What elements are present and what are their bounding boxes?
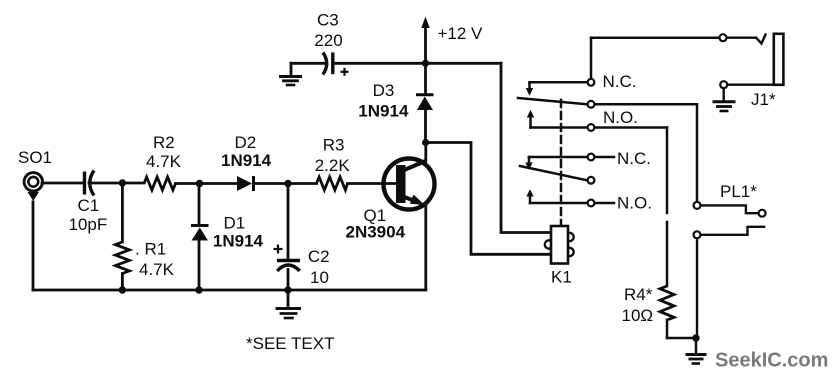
svg-text:C1: C1 [78,196,100,215]
svg-text:10: 10 [310,268,329,287]
svg-text:+12 V: +12 V [438,24,484,43]
svg-text:2.2K: 2.2K [315,156,351,175]
svg-text:PL1*: PL1* [720,182,757,201]
svg-text:10Ω: 10Ω [622,306,654,325]
svg-text:220: 220 [314,31,342,50]
svg-text:4.7K: 4.7K [139,260,175,279]
svg-text:R3: R3 [323,136,345,155]
svg-text:SeekIC.com: SeekIC.com [715,350,828,372]
svg-text:C3: C3 [317,11,339,30]
svg-text:N.C.: N.C. [617,149,651,168]
svg-text:D2: D2 [235,133,257,152]
svg-text:N.C.: N.C. [603,72,637,91]
svg-text:K1: K1 [551,268,572,287]
svg-text:10pF: 10pF [69,215,108,234]
svg-text:C2: C2 [308,247,330,266]
svg-text:R2: R2 [153,133,175,152]
svg-text:1N914: 1N914 [221,151,272,170]
svg-text:D1: D1 [224,214,246,233]
svg-text:R4*: R4* [624,285,653,304]
svg-text:SO1: SO1 [18,148,52,167]
svg-text:N.O.: N.O. [603,108,638,127]
svg-text:2N3904: 2N3904 [346,223,406,242]
svg-text:*SEE TEXT: *SEE TEXT [246,334,335,353]
svg-text:J1*: J1* [751,90,776,109]
svg-text:D3: D3 [373,81,395,100]
svg-text:1N914: 1N914 [213,232,264,251]
svg-text:1N914: 1N914 [358,101,409,120]
svg-text:4.7K: 4.7K [146,152,182,171]
svg-text:. R1: . R1 [135,240,166,259]
svg-text:N.O.: N.O. [617,194,652,213]
